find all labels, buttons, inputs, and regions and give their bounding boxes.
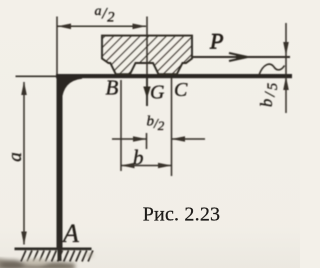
ground hatching <box>21 251 93 262</box>
horizontal beam of L-bracket <box>56 74 292 78</box>
b/5 lower arrowhead pointing up <box>283 77 289 91</box>
a/2 right arrowhead <box>133 24 147 30</box>
centerline stub at b/2 dimension <box>146 133 148 149</box>
dimension a/2 line <box>58 25 147 27</box>
P arrowhead <box>229 53 248 61</box>
force G arrow (down from block center) <box>146 78 148 106</box>
b/5 upper arrowhead pointing down <box>283 42 289 56</box>
a top arrowhead <box>21 82 27 96</box>
ground line at A <box>15 248 92 251</box>
faint scan marks near ground <box>24 254 93 266</box>
b left arrowhead <box>121 163 135 168</box>
hatched block resting on beam <box>102 36 192 75</box>
dimension b/2: left trail and arrow pointing right to centerline <box>112 138 146 140</box>
extension line above post for a/2 <box>56 17 58 75</box>
bottom-left scan smudge <box>0 258 75 268</box>
a/2 left arrowhead <box>58 24 72 30</box>
svg-text:Рис. 2.23: Рис. 2.23 <box>143 204 221 226</box>
extension line below C <box>171 78 173 176</box>
dimension b/5 vertical line at right <box>285 23 287 113</box>
force P arrow line <box>192 56 290 58</box>
dimension b line <box>121 165 172 167</box>
extension line left of beam for dimension a <box>16 75 57 77</box>
extension line below B <box>120 80 122 171</box>
dimension a line <box>23 82 25 245</box>
b right arrowhead <box>158 163 172 168</box>
dimension b/2: right trail and arrow pointing left to C line <box>172 138 205 140</box>
leader squiggle for b/5 <box>259 64 285 75</box>
fillet at inner corner <box>61 78 82 101</box>
a bottom arrowhead <box>21 232 27 246</box>
centerline of block (extension line for a/2 and G) <box>146 17 148 75</box>
vertical post (column) of L-bracket <box>57 74 63 250</box>
